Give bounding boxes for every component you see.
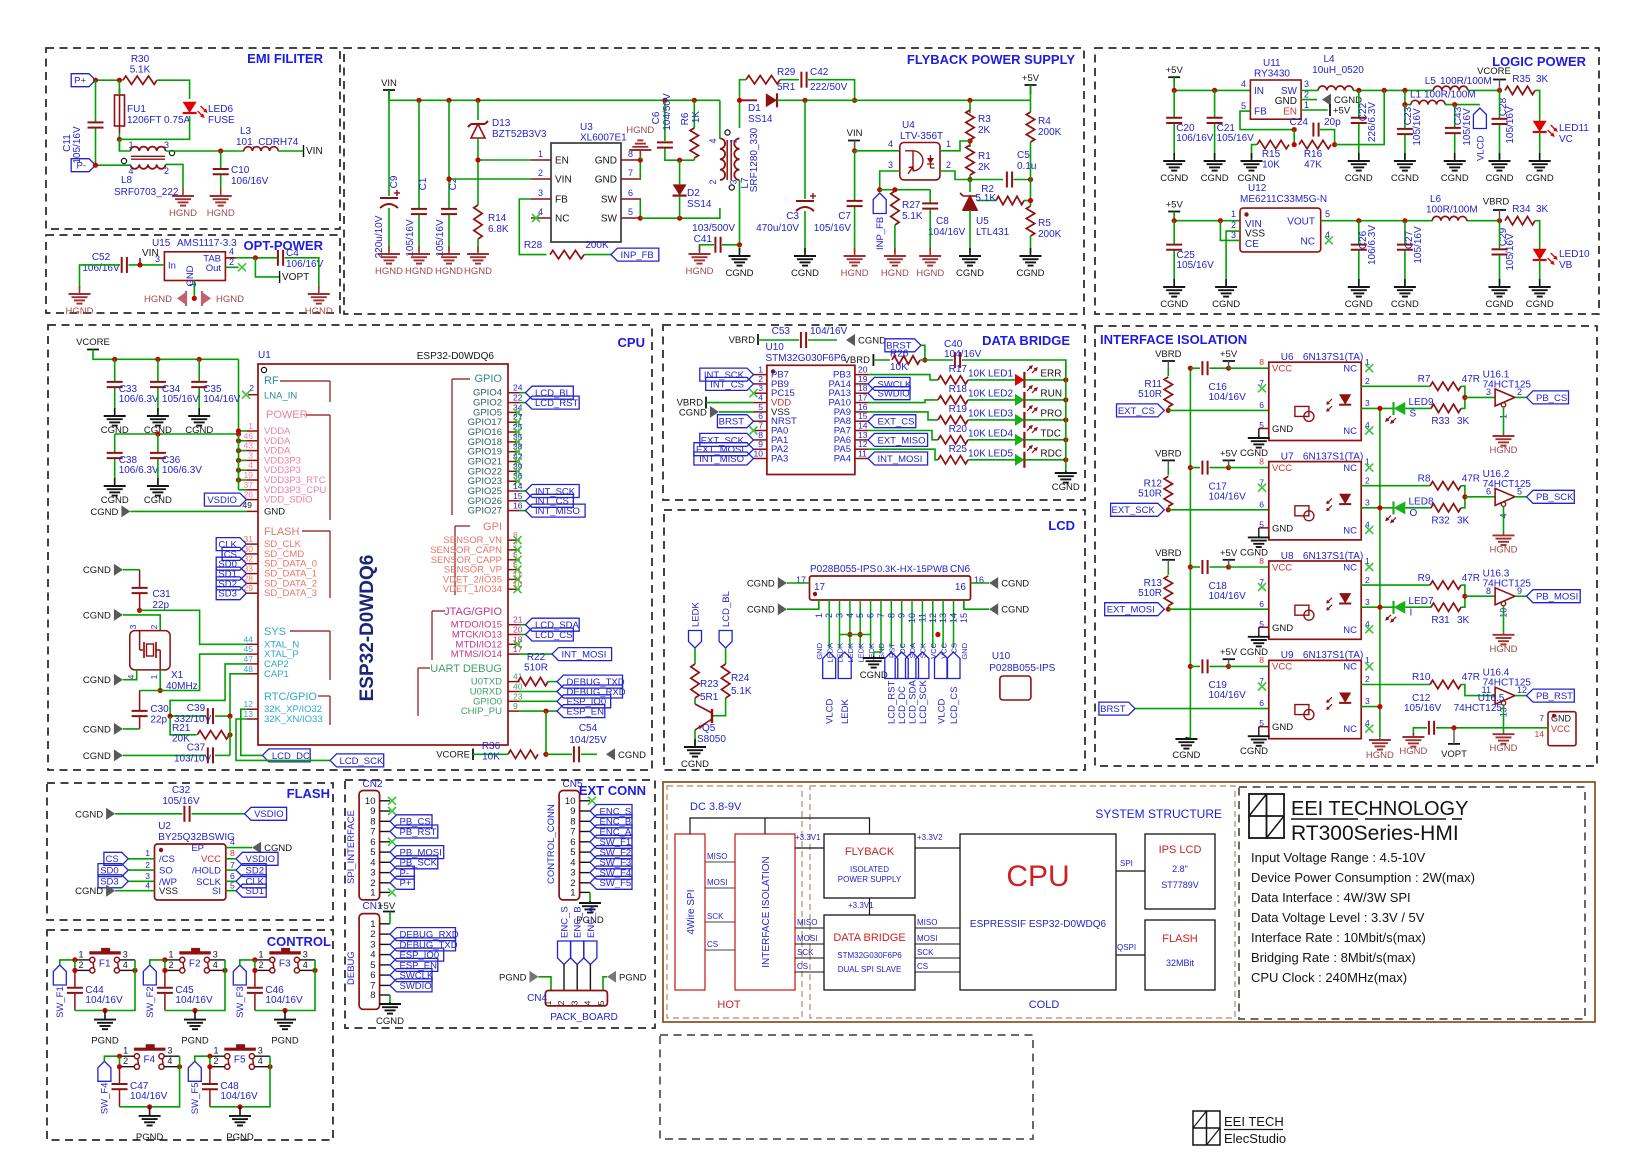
global label VLCD vertical xyxy=(1473,108,1486,161)
svg-text:CN5: CN5 xyxy=(563,779,583,790)
svg-text:105/16V: 105/16V xyxy=(1404,703,1442,714)
svg-text:1: 1 xyxy=(570,887,575,898)
ground HGND under L8 xyxy=(169,188,197,219)
global label INT_MOSI at U10 xyxy=(868,452,928,465)
connector CN6 labels xyxy=(810,564,970,575)
ground CGND under C29 xyxy=(1486,279,1514,310)
svg-text:GPI: GPI xyxy=(483,521,502,533)
svg-text:CGND: CGND xyxy=(858,336,886,347)
svg-text:HGND: HGND xyxy=(686,266,714,277)
U10 pin 4 VDD xyxy=(754,393,792,409)
wire crystal pin2 gnd xyxy=(123,615,160,631)
svg-text:LCD: LCD xyxy=(1048,518,1075,533)
CN2 pin 8 xyxy=(370,816,390,827)
wire SD1 stub at U2 xyxy=(226,890,236,892)
wire U6 pin2 xyxy=(1361,385,1430,387)
U1 uart pin 41 U0TXD xyxy=(471,672,523,688)
junction C26 xyxy=(1356,218,1361,223)
buffer U16.3 body xyxy=(1486,586,1522,618)
svg-text:IPS LCD: IPS LCD xyxy=(1159,844,1202,856)
connector CN1 label xyxy=(363,901,383,912)
spec line 1 xyxy=(1251,850,1426,865)
wire shell left xyxy=(787,600,819,609)
U1 GND pin 49 xyxy=(243,500,286,518)
global label SW_F5 xyxy=(188,1061,201,1114)
junction F5 pin2 xyxy=(207,1064,212,1069)
wire R27 bottom xyxy=(894,225,896,253)
label SYSTEM STRUCTURE xyxy=(1095,807,1222,821)
svg-text:+5V: +5V xyxy=(378,901,396,912)
svg-text:FLYBACK POWER SUPPLY: FLYBACK POWER SUPPLY xyxy=(907,52,1075,67)
resistor R22 510R xyxy=(518,652,548,686)
resistor R12 510R xyxy=(1138,476,1172,506)
svg-text:CONTROL_CONN: CONTROL_CONN xyxy=(546,804,557,884)
svg-text:Out: Out xyxy=(206,263,222,274)
CN6 pin 15 GND xyxy=(959,600,969,660)
svg-text:U10: U10 xyxy=(766,342,785,353)
svg-text:RY3430: RY3430 xyxy=(1254,69,1290,80)
global label SD1 at U2 xyxy=(236,884,266,897)
ground CGND under R15 xyxy=(1238,153,1266,184)
wire to buffer U16.1 xyxy=(1465,396,1495,398)
wire Q5 emitter xyxy=(694,730,696,745)
ground CGND under LED11 xyxy=(1526,153,1554,184)
svg-text:R4: R4 xyxy=(1038,116,1051,127)
svg-text:1: 1 xyxy=(814,613,824,618)
svg-text:5R1: 5R1 xyxy=(777,82,796,93)
ground CGND under cap rail xyxy=(1172,737,1200,761)
svg-text:222/50V: 222/50V xyxy=(810,82,848,93)
junction rail RDC xyxy=(1063,457,1068,462)
IC U12 body xyxy=(1240,208,1321,252)
junction F3 pin2 xyxy=(252,968,257,973)
wire C38 top xyxy=(114,434,116,452)
svg-text:R32: R32 xyxy=(1431,515,1450,526)
svg-text:1: 1 xyxy=(729,138,739,143)
wire C22 top xyxy=(1358,90,1360,117)
svg-text:R18: R18 xyxy=(949,384,968,395)
svg-text:MISO: MISO xyxy=(797,918,817,927)
CN6 pin 8 RST xyxy=(886,600,896,658)
svg-text:CPU Clock : 240MHz(max): CPU Clock : 240MHz(max) xyxy=(1251,970,1407,985)
power flag VCORE top xyxy=(76,337,110,350)
svg-text:R30: R30 xyxy=(131,54,150,65)
svg-text:106/16V: 106/16V xyxy=(1176,133,1214,144)
svg-text:48: 48 xyxy=(244,664,254,674)
global label SD3 at U2 xyxy=(98,875,128,888)
ground CGND under C20 xyxy=(1160,153,1188,184)
U1 power pin 37 VDD3P3_CPU xyxy=(244,480,327,496)
svg-text:VCC: VCC xyxy=(1272,562,1292,573)
svg-text:TDC: TDC xyxy=(1040,428,1061,439)
resistor R27 5.1K xyxy=(891,191,923,225)
label +3.3V2 xyxy=(917,833,943,842)
capacitor C12 105/16V xyxy=(1404,693,1442,735)
svg-text:SS14: SS14 xyxy=(687,199,712,210)
wire C10 bottom xyxy=(220,175,222,188)
CN6 pin 9 DC xyxy=(897,600,907,654)
svg-text:FB: FB xyxy=(555,195,568,206)
U1 power pin 1 VDDA xyxy=(246,421,291,437)
svg-text:C39: C39 xyxy=(187,703,206,714)
svg-text:EXT_MOSI: EXT_MOSI xyxy=(1107,605,1155,616)
wire VBRD to VDD xyxy=(706,402,754,404)
wire C23 top xyxy=(1404,105,1406,128)
ground CGND under C28 xyxy=(1486,153,1514,184)
global label P- at CN2 xyxy=(390,866,414,879)
resistor R10 47R xyxy=(1412,672,1480,689)
svg-text:43: 43 xyxy=(244,441,254,451)
svg-text:4: 4 xyxy=(213,960,218,970)
no-connect GPIO18 xyxy=(514,438,522,446)
svg-text:INP_FB: INP_FB xyxy=(621,250,654,261)
svg-text:2: 2 xyxy=(1365,674,1370,684)
svg-text:PACK_BOARD: PACK_BOARD xyxy=(550,1012,618,1023)
svg-text:38: 38 xyxy=(513,442,523,452)
wire BRST down xyxy=(921,345,925,360)
svg-text:6N137S1(TA): 6N137S1(TA) xyxy=(1303,650,1363,661)
junction bus pin 1 xyxy=(236,428,241,433)
junction +5V U7 xyxy=(1226,465,1231,470)
junction R15 R16 xyxy=(1292,142,1297,147)
svg-text:Data Voltage Level : 3.3V / 5V: Data Voltage Level : 3.3V / 5V xyxy=(1251,910,1425,925)
svg-text:O: O xyxy=(1410,508,1418,519)
svg-text:1K: 1K xyxy=(691,111,702,124)
svg-text:VIN: VIN xyxy=(142,248,159,259)
svg-text:105/16V: 105/16V xyxy=(435,219,446,257)
junction EXT_SCK xyxy=(1166,507,1171,512)
junction vcore rail xyxy=(197,357,202,362)
wire spi MOSI xyxy=(705,887,735,889)
capacitor C11 xyxy=(62,122,104,163)
svg-text:6: 6 xyxy=(1259,499,1264,509)
junction bus pin 43 xyxy=(236,448,241,453)
no-connect U6 pin4 xyxy=(1365,427,1373,435)
svg-text:2: 2 xyxy=(149,624,159,629)
svg-text:DATA BRIDGE: DATA BRIDGE xyxy=(982,333,1070,348)
junction R2 column xyxy=(1028,198,1033,203)
svg-text:LED7: LED7 xyxy=(1409,596,1434,607)
svg-text:4: 4 xyxy=(167,1056,172,1066)
wire C41 left xyxy=(700,245,715,251)
wire F2 flag to pin1 xyxy=(150,960,165,965)
connector CN4 PACK_BOARD xyxy=(527,991,618,1024)
svg-text:42: 42 xyxy=(513,452,523,462)
U10 pin 1 PB7 xyxy=(754,365,789,381)
no-connect MTDI/IO12 xyxy=(514,640,522,648)
svg-text:INT_MOSI: INT_MOSI xyxy=(878,454,923,465)
svg-text:P028B055-IPS: P028B055-IPS xyxy=(810,564,876,575)
svg-text:INT_MOSI: INT_MOSI xyxy=(562,650,607,661)
junction C10 tap xyxy=(218,148,223,153)
svg-text:VCC: VCC xyxy=(1551,724,1571,734)
LED LED9 green xyxy=(1386,397,1434,423)
wire L1 to VLCD xyxy=(1445,104,1480,106)
power flag VBRD at R26 xyxy=(844,354,874,366)
connector CN1 body xyxy=(359,914,380,1010)
ground CGND U8 xyxy=(1240,635,1270,658)
wire C35 top xyxy=(198,359,200,381)
svg-text:C1: C1 xyxy=(418,177,429,190)
junction C28 VCORE xyxy=(1497,88,1502,93)
wire Out pin xyxy=(225,266,238,268)
FLASH section border xyxy=(47,783,333,920)
svg-text:LED3: LED3 xyxy=(988,408,1013,419)
svg-text:11: 11 xyxy=(858,449,867,459)
svg-text:U2: U2 xyxy=(158,821,171,832)
junction F5 pin4 xyxy=(267,1064,272,1069)
U8 gnd pin xyxy=(1259,627,1269,635)
junction snubber left xyxy=(737,98,742,103)
svg-text:1: 1 xyxy=(188,282,198,287)
HOT zone dashed border xyxy=(667,786,802,1018)
wire C6 bottom xyxy=(665,149,694,161)
svg-text:GPIO27: GPIO27 xyxy=(468,506,502,517)
svg-text:5.1K: 5.1K xyxy=(130,65,151,76)
svg-text:R5: R5 xyxy=(1038,218,1051,229)
global label ESP_IO0 at CN1 xyxy=(390,948,444,961)
resistor R28 200K xyxy=(524,240,609,259)
svg-text:25: 25 xyxy=(513,422,523,432)
junction rail D13 xyxy=(475,98,480,103)
U1 SYS header xyxy=(264,626,330,680)
junction +5V U9 xyxy=(1226,664,1231,669)
svg-text:0.1u: 0.1u xyxy=(1017,161,1036,172)
ground CGND under U12 xyxy=(1212,279,1240,310)
svg-text:INTERFACE ISOLATION: INTERFACE ISOLATION xyxy=(761,856,772,968)
wire 5V to VCC U7 xyxy=(1229,467,1269,469)
junction buffer in U8 xyxy=(1462,594,1467,599)
svg-text:Interface Rate : 10Mbit/s(max): Interface Rate : 10Mbit/s(max) xyxy=(1251,930,1426,945)
svg-text:FUSE: FUSE xyxy=(208,115,235,126)
svg-text:LCD_CS: LCD_CS xyxy=(949,687,960,725)
wire C37 left xyxy=(123,754,206,756)
svg-text:COLD: COLD xyxy=(1029,999,1060,1011)
ground PGND F3 xyxy=(271,1011,299,1047)
svg-text:3: 3 xyxy=(303,949,308,959)
no-connect U6 pin7 xyxy=(1258,384,1266,392)
CONTROL section border xyxy=(47,930,333,1140)
svg-text:1: 1 xyxy=(538,149,543,159)
wire VBRD to R11 xyxy=(1167,368,1169,376)
junction SW pins xyxy=(638,216,643,221)
svg-text:35: 35 xyxy=(513,432,523,442)
U1 RF section xyxy=(264,375,330,402)
no-connect GPIO17 xyxy=(514,418,522,426)
no-connect GPIO16 xyxy=(514,428,522,436)
wire rail to cap C19 xyxy=(1190,665,1200,667)
svg-text:12: 12 xyxy=(1517,685,1527,695)
ground CGND at C53 xyxy=(846,334,886,347)
wire C26 top xyxy=(1358,221,1360,244)
svg-text:SW_F2: SW_F2 xyxy=(145,986,156,1018)
svg-text:U8: U8 xyxy=(1281,551,1294,562)
wire bridge-cpu MISO xyxy=(915,927,960,929)
svg-text:SD1: SD1 xyxy=(246,886,264,897)
svg-text:VLCD: VLCD xyxy=(825,699,836,724)
svg-text:JTAG/GPIO: JTAG/GPIO xyxy=(444,606,502,618)
svg-text:1: 1 xyxy=(248,421,253,431)
wire VIN pin from rail xyxy=(449,178,531,180)
capacitor C1 105/16V xyxy=(405,177,429,256)
wire C10 top xyxy=(220,151,222,168)
svg-text:R17: R17 xyxy=(949,364,968,375)
U1 pin2 LNA_IN xyxy=(242,383,258,399)
global label EXT_CS xyxy=(1117,404,1165,417)
svg-text:3: 3 xyxy=(835,613,845,618)
label MOSI iso xyxy=(797,934,817,943)
svg-text:MOSI: MOSI xyxy=(917,934,937,943)
global label LCD_SDA xyxy=(526,618,580,631)
svg-text:PRO: PRO xyxy=(1040,409,1062,420)
svg-text:CPU: CPU xyxy=(1006,860,1069,893)
svg-text:CS: CS xyxy=(797,962,808,971)
wire rail to C16 xyxy=(1190,367,1200,369)
ground CGND under C23 xyxy=(1391,153,1419,184)
svg-text:PA3: PA3 xyxy=(771,454,788,465)
svg-text:P+: P+ xyxy=(400,878,412,889)
svg-text:BRST: BRST xyxy=(719,417,745,428)
svg-text:NC: NC xyxy=(1343,463,1357,474)
svg-text:XL6007E1: XL6007E1 xyxy=(580,133,627,144)
svg-text:RUN: RUN xyxy=(1040,389,1062,400)
capacitor C35 xyxy=(191,382,241,405)
global label SD0 xyxy=(216,557,246,570)
svg-text:27: 27 xyxy=(513,412,523,422)
capacitor C8 104/16V xyxy=(922,203,965,238)
CN1 pin 1 xyxy=(370,919,390,930)
wire CAP1 loop xyxy=(230,674,246,716)
wire CN1 pin8 gnd xyxy=(389,995,391,1002)
wire LED6 to node xyxy=(119,116,189,139)
ground PGND left of CN4 xyxy=(499,971,538,984)
capacitor C42 222/50V xyxy=(801,67,847,93)
CPU section border xyxy=(48,325,652,770)
svg-text:200K: 200K xyxy=(1038,127,1062,138)
svg-text:VCC: VCC xyxy=(201,854,221,865)
switch F3 xyxy=(259,948,308,973)
wire C33 bottom xyxy=(114,388,116,414)
wire L4 to rail xyxy=(1353,89,1433,91)
svg-text:PGND: PGND xyxy=(271,1036,299,1047)
svg-text:LEDK: LEDK xyxy=(690,602,701,627)
svg-text:100R/100M: 100R/100M xyxy=(1440,76,1492,87)
wire LED rail down xyxy=(1065,360,1067,471)
wire CGND to VSS xyxy=(719,411,754,413)
footprint U10 P028B055-IPS xyxy=(989,651,1055,700)
svg-text:F3: F3 xyxy=(279,958,291,969)
svg-text:CGND: CGND xyxy=(618,750,646,761)
global label PB_RST at CN2 xyxy=(390,825,438,838)
LOGIC POWER section border xyxy=(1095,48,1599,314)
svg-text:C5: C5 xyxy=(1017,150,1030,161)
global label INT_MOSI xyxy=(552,648,612,661)
svg-text:100R/100M: 100R/100M xyxy=(1424,90,1476,101)
junction F3 pin4 xyxy=(312,968,317,973)
svg-text:13: 13 xyxy=(244,709,254,719)
wire spi MISO xyxy=(705,861,735,863)
global label SWCLK xyxy=(868,377,912,390)
section title LCD xyxy=(1048,518,1075,533)
junction buffer in U6 xyxy=(1462,395,1467,400)
wire R25 to LED5 xyxy=(968,459,1015,461)
svg-text:SCK: SCK xyxy=(797,948,814,957)
no-connect U10 PC15 xyxy=(750,389,758,397)
svg-text:4: 4 xyxy=(126,674,136,679)
section title LOGIC POWER xyxy=(1492,54,1587,69)
U6 gnd pin xyxy=(1259,429,1269,437)
power +5V at EN xyxy=(1330,104,1351,117)
wire C36 top xyxy=(157,434,159,452)
capacitor C40 104/16V xyxy=(944,339,982,368)
label COLD xyxy=(1029,999,1060,1011)
U1 gpi pin 5 SENSOR_VP xyxy=(444,560,520,576)
wire to C31 xyxy=(123,569,140,571)
svg-text:VIN: VIN xyxy=(555,175,572,186)
svg-text:DATA BRIDGE: DATA BRIDGE xyxy=(833,932,905,944)
svg-text:VDET_1/IO34: VDET_1/IO34 xyxy=(443,584,502,595)
svg-text:HGND: HGND xyxy=(66,306,94,317)
CN2 pin 1 xyxy=(370,887,390,898)
capacitor C24 20p xyxy=(1290,117,1341,137)
wire 5V to VCC U9 xyxy=(1229,665,1269,667)
svg-text:ESP32-D0WDQ6: ESP32-D0WDQ6 xyxy=(417,351,495,362)
svg-text:R21: R21 xyxy=(172,723,191,734)
global label ENC_A at CN4 xyxy=(584,906,597,965)
wire R18 to LED2 xyxy=(968,399,1015,401)
wire R28 to INP_FB xyxy=(584,254,611,256)
svg-text:2.8": 2.8" xyxy=(1172,864,1188,874)
svg-text:44: 44 xyxy=(244,634,254,644)
U1 uart pin 9 CHIP_PU xyxy=(461,701,520,717)
skip xyxy=(0,0,1,1)
wire C18 to 5V xyxy=(1210,566,1229,568)
svg-text:C3: C3 xyxy=(786,211,799,222)
wire resistor join U8 xyxy=(1461,585,1465,607)
ground PGND F4 xyxy=(136,1107,164,1143)
global label PB_RST xyxy=(1527,689,1575,702)
regulator U15 AMS1117-3.3 labels xyxy=(152,238,237,249)
svg-text:C53: C53 xyxy=(772,326,791,337)
title RT300Series-HMI xyxy=(1291,822,1459,845)
junction buffer in U7 xyxy=(1462,494,1467,499)
spec line 6 xyxy=(1251,950,1416,965)
svg-text:1: 1 xyxy=(1231,209,1236,219)
capacitor C30 22p xyxy=(132,691,170,729)
capacitor C17 104/16V xyxy=(1202,461,1246,503)
U10 pin 2 PB9 xyxy=(754,374,789,390)
wire CN5 pin1 gnd xyxy=(589,892,591,901)
svg-text:LED4: LED4 xyxy=(988,428,1013,439)
svg-text:HGND: HGND xyxy=(626,125,654,136)
CN6 pin 14 CS xyxy=(949,600,959,653)
svg-text:CS: CS xyxy=(707,940,718,949)
svg-text:S: S xyxy=(1410,409,1417,420)
svg-text:105/16V: 105/16V xyxy=(814,223,852,234)
svg-text:CPU: CPU xyxy=(618,335,645,350)
global label ENC_A at CN5 xyxy=(590,825,632,838)
section title EXT CONN xyxy=(579,783,646,798)
junction F3 pin1 xyxy=(252,957,257,962)
resistor R11 510R xyxy=(1138,377,1172,407)
power flag VCORE bottom xyxy=(436,749,473,761)
svg-text:10K: 10K xyxy=(968,409,986,420)
svg-text:SPI: SPI xyxy=(1120,859,1133,868)
svg-text:10: 10 xyxy=(513,579,523,589)
svg-text:SW: SW xyxy=(601,214,618,225)
ground CGND at CN6 shell left xyxy=(747,603,787,616)
svg-text:SYS: SYS xyxy=(264,626,286,638)
